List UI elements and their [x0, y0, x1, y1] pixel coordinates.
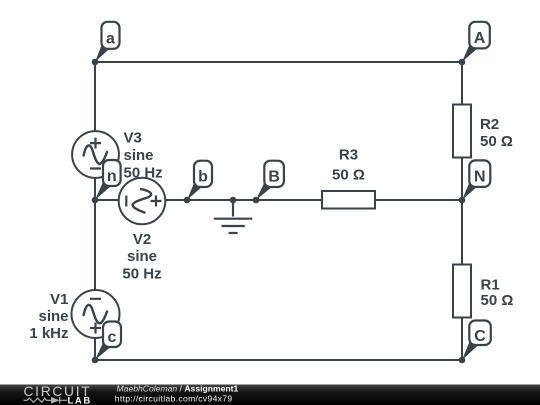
- svg-text:MaebhColeman / Assignment1: MaebhColeman / Assignment1: [117, 384, 239, 394]
- svg-text:R2: R2: [480, 116, 499, 133]
- svg-text:A: A: [474, 30, 486, 47]
- svg-text:a: a: [106, 30, 115, 47]
- svg-text:50 Ω: 50 Ω: [481, 292, 514, 309]
- svg-text:V1: V1: [50, 291, 68, 308]
- svg-text:50 Hz: 50 Hz: [122, 266, 161, 283]
- svg-text:50 Hz: 50 Hz: [124, 165, 163, 182]
- svg-text:sine: sine: [127, 248, 157, 265]
- svg-text:http://circuitlab.com/cv94x79: http://circuitlab.com/cv94x79: [115, 393, 233, 403]
- svg-text:R3: R3: [339, 147, 358, 164]
- svg-text:c: c: [108, 329, 117, 346]
- svg-text:b: b: [198, 169, 208, 186]
- svg-text:sine: sine: [124, 147, 154, 164]
- svg-text:50 Ω: 50 Ω: [480, 133, 513, 150]
- svg-text:1 kHz: 1 kHz: [29, 325, 68, 342]
- svg-text:LAB: LAB: [68, 395, 92, 405]
- svg-text:N: N: [474, 169, 486, 186]
- svg-text:V2: V2: [133, 231, 151, 248]
- svg-text:sine: sine: [38, 308, 68, 325]
- svg-text:C: C: [474, 328, 486, 345]
- svg-text:R1: R1: [481, 277, 500, 294]
- svg-text:B: B: [268, 169, 280, 186]
- svg-text:n: n: [107, 168, 117, 185]
- svg-text:V3: V3: [124, 130, 142, 147]
- svg-text:50 Ω: 50 Ω: [332, 167, 365, 184]
